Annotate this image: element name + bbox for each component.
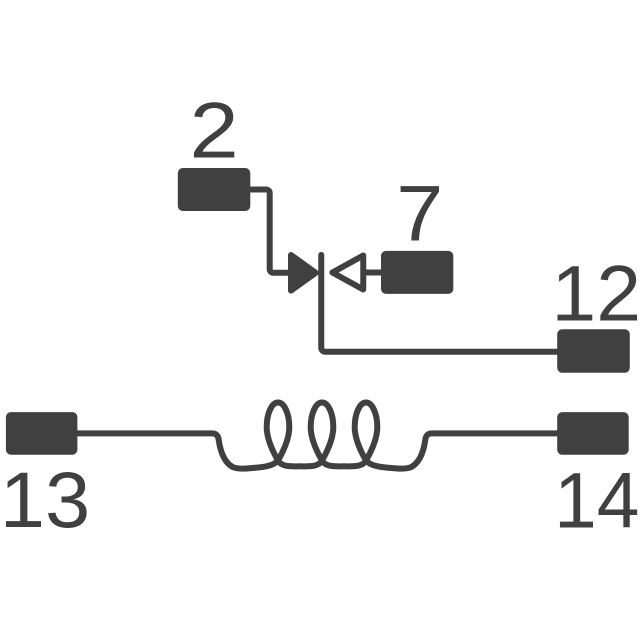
wire open triangle to pin 7 (363, 270, 382, 276)
coil L1 with leads (77, 403, 558, 469)
terminal pin 13 (6, 412, 78, 455)
svg-text:13: 13 (0, 455, 90, 544)
pin label 2 (189, 86, 238, 175)
contact bar and wire to pin 12 (321, 255, 557, 352)
contact fixed (open triangle) (332, 256, 363, 290)
pin label 12 (551, 249, 640, 337)
svg-text:7: 7 (396, 170, 443, 258)
pin label 7 (396, 170, 443, 258)
terminal pin 7 (381, 251, 453, 294)
terminal pin 2 (178, 168, 251, 211)
terminal pin 14 (557, 412, 629, 455)
svg-text:12: 12 (551, 249, 640, 337)
pin label 14 (554, 457, 639, 544)
svg-text:14: 14 (554, 457, 639, 544)
svg-text:2: 2 (189, 86, 238, 175)
contact movable arm (filled triangle) (291, 255, 316, 291)
pin label 13 (0, 455, 90, 544)
terminal pin 12 (557, 329, 630, 373)
wire pin2 to contact (248, 190, 289, 273)
